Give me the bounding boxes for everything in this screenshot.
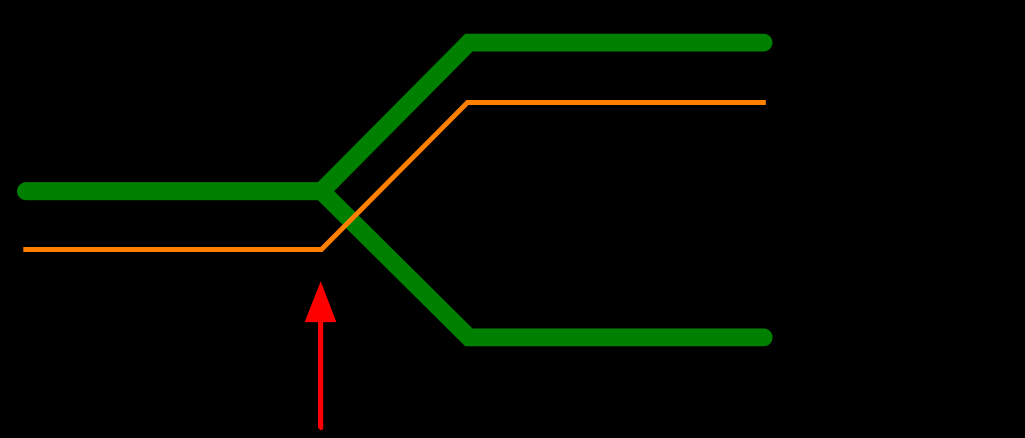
red divergence-point arrow — [305, 281, 337, 430]
green species trunk and upper branch — [26, 43, 764, 192]
green species trunk and lower branch — [26, 191, 764, 337]
orange gene lineage line — [23, 103, 766, 250]
